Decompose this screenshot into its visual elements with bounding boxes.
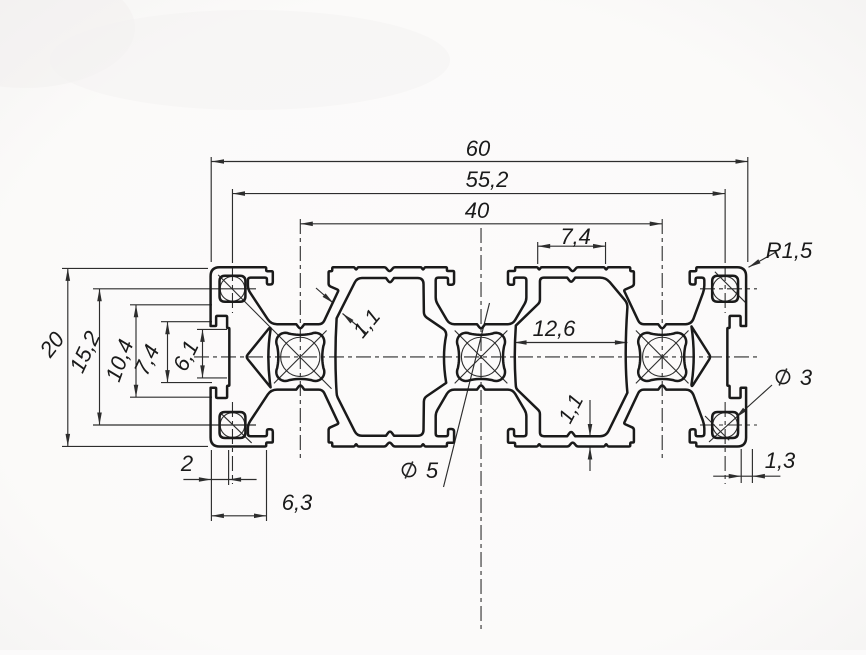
svg-text:1,3: 1,3 [765,448,796,473]
svg-text:2: 2 [180,451,193,476]
svg-text:5: 5 [426,458,439,483]
svg-text:60: 60 [466,136,491,161]
svg-text:3: 3 [800,365,813,390]
svg-text:6,3: 6,3 [282,490,313,515]
svg-text:7,4: 7,4 [560,224,591,249]
svg-text:12,6: 12,6 [533,316,577,341]
svg-text:40: 40 [465,198,490,223]
svg-text:R1,5: R1,5 [766,238,813,263]
svg-text:55,2: 55,2 [466,167,509,192]
